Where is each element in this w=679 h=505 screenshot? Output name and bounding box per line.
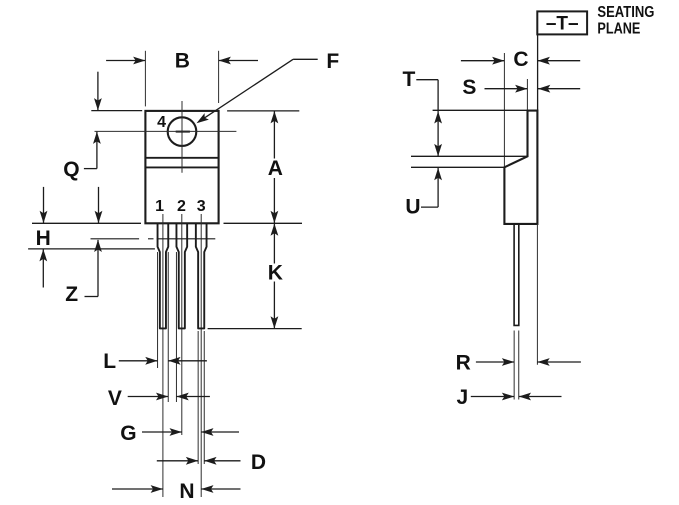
dimension F label [326, 50, 339, 73]
dimension S left arrow [485, 85, 528, 93]
seating plane caption [597, 4, 654, 38]
dimension B left arrow [106, 57, 145, 65]
body top-left extension line [91, 110, 142, 112]
dimension L line-arrow [119, 357, 158, 365]
side view body outline [504, 111, 537, 224]
lead3 left narrow-edge extension [197, 331, 199, 464]
dimension T leader [416, 80, 438, 157]
svg-text:B: B [175, 50, 190, 73]
svg-text:A: A [268, 157, 283, 180]
dimension Q leader [84, 168, 97, 170]
svg-text:4: 4 [157, 114, 166, 131]
svg-text:2: 2 [177, 198, 186, 215]
lead tip reference line [208, 328, 302, 330]
body top-right extension line [227, 110, 299, 112]
dimension T up arrowhead [434, 111, 442, 123]
dimension Z lower arrow [94, 240, 102, 297]
dimension A label [268, 157, 283, 180]
side lead left-edge extension [513, 331, 515, 400]
svg-text:R: R [456, 352, 471, 375]
dimension C right arrow [538, 57, 581, 65]
dimension U label [405, 196, 420, 219]
dimension Z upper arrow [95, 187, 103, 223]
dimension G line-arrow [142, 428, 182, 436]
lead 2 centerline [181, 214, 183, 435]
svg-text:F: F [326, 50, 339, 73]
dimension A top arrow [271, 111, 279, 158]
svg-text:J: J [456, 386, 468, 409]
dimension R left arrow [476, 358, 514, 366]
tab left-edge upper extension [526, 79, 528, 110]
lead3 right narrow-edge extension [203, 331, 205, 464]
dimension H label [36, 227, 51, 250]
svg-text:SEATING: SEATING [597, 4, 654, 21]
svg-text:D: D [251, 451, 266, 474]
dimension A bottom arrow [271, 178, 279, 223]
tab top extension line [433, 109, 528, 111]
svg-text:U: U [405, 196, 420, 219]
tab step band line upper [145, 157, 218, 159]
step upper extension line [411, 155, 528, 157]
svg-text:K: K [268, 262, 283, 285]
TO-220 front view body outline [145, 111, 218, 223]
dimension L label [103, 350, 116, 373]
dimension H lower arrow [39, 249, 47, 287]
dimension T label [402, 68, 415, 91]
svg-text:–T–: –T– [546, 14, 579, 35]
dimension U leader [421, 168, 438, 207]
dimension B label [175, 50, 190, 73]
dimension N label [179, 480, 194, 503]
svg-text:Z: Z [65, 283, 78, 306]
dimension R label [456, 352, 471, 375]
svg-text:Q: Q [63, 158, 79, 181]
svg-text:V: V [108, 387, 122, 410]
dimension V right arrow [176, 393, 209, 401]
svg-text:C: C [513, 48, 528, 71]
pin 1 label [155, 198, 164, 215]
dimension K label [268, 262, 283, 285]
dimension D line-arrow [157, 457, 198, 465]
mounting hole (item 4) [168, 117, 197, 146]
dimension G right arrow [201, 428, 239, 436]
H reference line [28, 248, 155, 250]
dimension U up arrowhead [434, 168, 442, 180]
dimension K bottom arrow [271, 282, 279, 329]
lead1 left-edge extension [157, 252, 159, 368]
body bottom-right extension line [224, 222, 303, 224]
hole center extension line [95, 130, 237, 132]
datum -T- text [546, 14, 579, 35]
dimension J left arrow [471, 393, 514, 401]
lead 3 centerline [200, 214, 202, 497]
hole center tick [176, 131, 190, 133]
pin 3 label [197, 198, 206, 215]
side view lead outline [514, 224, 519, 326]
lead 2 outline [176, 223, 187, 328]
svg-text:T: T [402, 68, 415, 91]
dimension B right extension [218, 51, 220, 103]
svg-text:L: L [103, 350, 116, 373]
svg-text:3: 3 [197, 198, 206, 215]
dimension N right arrow [201, 485, 240, 493]
dimension H upper arrow [40, 187, 48, 223]
dimension C label [513, 48, 528, 71]
svg-text:S: S [462, 76, 476, 99]
svg-text:H: H [36, 227, 51, 250]
dimension J label [456, 386, 468, 409]
Z reference dash-dot line [91, 238, 216, 240]
svg-text:G: G [120, 422, 136, 445]
dimension V label [108, 387, 122, 410]
dimension D right arrow [204, 457, 240, 465]
dimension Q upper arrow [94, 72, 102, 111]
dimension F leader [197, 59, 318, 123]
dimension J right arrow [519, 393, 562, 401]
tab step band line lower [145, 166, 218, 168]
dimension Q lower arrow [93, 132, 101, 169]
dimension R right arrow [537, 358, 581, 366]
svg-text:1: 1 [155, 198, 164, 215]
dimension S right arrow [538, 85, 580, 93]
dimension B left extension [144, 51, 146, 107]
body bottom-left extension line [32, 222, 141, 224]
lead 3 outline [196, 223, 207, 328]
lead 1 outline [158, 223, 169, 328]
step lower extension line [411, 166, 504, 168]
dimension L right arrow [168, 357, 207, 365]
svg-text:PLANE: PLANE [597, 21, 640, 38]
seating plane datum extension lower [536, 224, 538, 365]
pin 4 label [157, 114, 166, 131]
dimension C left arrow [461, 57, 505, 65]
hole vertical centerline [181, 101, 183, 173]
seating plane datum line upper [537, 34, 539, 110]
dimension S label [462, 76, 476, 99]
body left-edge upper extension [503, 53, 505, 167]
dimension G label [120, 422, 136, 445]
dimension N line-arrow [112, 485, 163, 493]
dimension Z label [65, 283, 78, 306]
dimension Z leader [85, 296, 99, 298]
dimension T down arrowhead [434, 144, 442, 156]
dimension Q label [63, 158, 79, 181]
lead1 right-edge extension [167, 252, 169, 402]
dimension K top arrow [271, 224, 279, 264]
svg-text:N: N [179, 480, 194, 503]
datum -T- feature box [537, 11, 587, 34]
pin 2 label [177, 198, 186, 215]
lead 1 centerline [162, 214, 164, 497]
side lead right-edge extension [518, 331, 520, 400]
lead2 left-edge extension [175, 252, 177, 402]
dimension V line-arrow [128, 393, 169, 401]
dimension D label [251, 451, 266, 474]
dimension B right arrow [219, 57, 258, 65]
